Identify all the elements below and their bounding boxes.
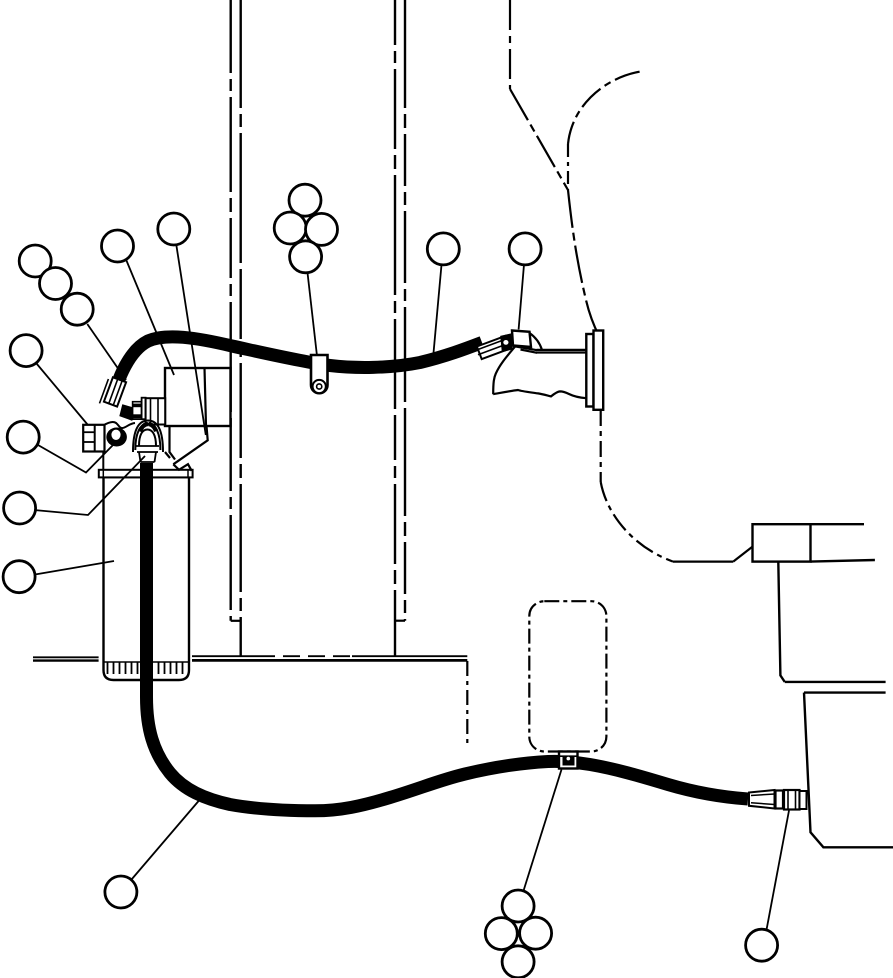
upper hose fitting right (sleeve) <box>476 336 510 359</box>
balloon 8 <box>102 230 134 262</box>
balloon 3 <box>61 293 93 325</box>
leader for balloon cluster 10 <box>308 273 317 355</box>
leader for balloon 7 <box>35 561 114 575</box>
tank fitting (end piece) <box>800 791 807 809</box>
clamp on lower hose <box>559 752 578 769</box>
canister top band <box>99 452 193 477</box>
leader for balloon chain 1-3 <box>87 324 126 380</box>
frame post left <box>231 0 241 657</box>
fitting body into head <box>142 398 166 425</box>
canister hatch ticks <box>104 662 188 674</box>
balloon 12 <box>509 233 541 265</box>
leader for balloon 4 <box>37 364 88 425</box>
balloon 1 <box>19 245 51 277</box>
phantom box (reservoir outline) <box>529 601 606 751</box>
machine body outline top right <box>510 0 640 336</box>
banjo ring (donut) <box>106 428 127 447</box>
filter canister <box>99 452 193 680</box>
clamp on upper hose <box>311 355 328 393</box>
leader for balloon 6 (dogleg) <box>34 456 145 515</box>
filter head bracket <box>165 426 208 471</box>
machine body outline right lower (tank region) <box>601 410 753 562</box>
balloon 7 <box>3 561 35 593</box>
balloon 6 <box>4 492 36 524</box>
casting squiggle between bolt and dome <box>104 422 135 428</box>
balloon 11 <box>427 233 459 265</box>
balloon 10a <box>289 184 321 216</box>
lower hose (tube to tank) <box>147 463 749 811</box>
balloon 10d <box>290 241 322 273</box>
tank fitting (nut) <box>784 790 800 810</box>
upper hose (tube to engine) <box>113 337 482 402</box>
balloon 10c <box>306 213 338 245</box>
frame post right <box>395 0 405 657</box>
engine port casting <box>493 333 586 398</box>
leader for balloon 12 <box>519 265 524 330</box>
tank fitting (ring) <box>776 791 784 809</box>
engine port flange plates <box>586 331 603 410</box>
elbow nut (black) at filter head <box>121 406 134 420</box>
leader for balloon 9 <box>176 245 206 435</box>
hose-end sleeve at filter elbow <box>100 377 127 406</box>
upper hose fitting right (ring nut) <box>501 334 512 351</box>
leader for balloon cluster 14 <box>524 770 562 891</box>
balloon 14b <box>485 918 517 950</box>
leader for balloon 13 <box>132 797 203 880</box>
floor line right segment <box>192 656 467 660</box>
balloon 10b <box>274 212 306 244</box>
upper hose fitting right (elbow block) <box>512 331 531 348</box>
leader for balloon 11 <box>434 265 442 353</box>
balloon 9 <box>158 213 190 245</box>
tank fitting lower right (sleeve) <box>749 790 775 809</box>
tank outline right <box>778 562 893 848</box>
balloon 14c <box>520 917 552 949</box>
floor corner dash-dot vertical <box>466 661 468 748</box>
balloon 15 <box>746 929 778 961</box>
balloon 13 <box>105 876 137 908</box>
dome fitting on filter top <box>133 421 163 463</box>
hex plug bolt <box>83 425 104 452</box>
leader for balloon 5 (dogleg) <box>38 444 114 473</box>
balloon 5 <box>7 421 39 453</box>
balloon 4 <box>10 335 42 367</box>
balloon 14d <box>502 946 534 978</box>
balloon 14a <box>502 890 534 922</box>
balloon 2 <box>40 268 72 300</box>
leader for balloon 8 <box>126 260 174 376</box>
floor line left segment <box>33 657 99 660</box>
union nut at filter head <box>133 402 142 420</box>
leader for balloon 15 <box>767 811 790 930</box>
filter head block <box>165 368 231 426</box>
tank bracket box <box>753 524 875 561</box>
